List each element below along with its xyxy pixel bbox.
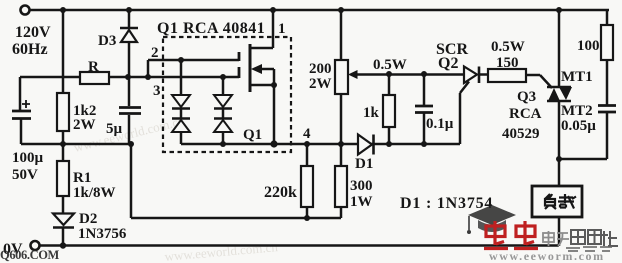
svg-text:220k: 220k [264,184,297,201]
svg-text:3: 3 [153,83,161,99]
svg-text:Q1: Q1 [243,127,262,143]
svg-text:150: 150 [496,55,519,71]
svg-text:D2: D2 [79,211,97,227]
svg-text:D3: D3 [98,33,116,49]
svg-text:RCA: RCA [509,106,542,122]
svg-text:1N3756: 1N3756 [78,226,127,242]
svg-text:D1: D1 [355,156,373,172]
svg-text:1k/8W: 1k/8W [73,185,116,201]
svg-text:Q3: Q3 [517,89,536,105]
svg-text:200: 200 [309,61,332,77]
svg-text:Q1 RCA 40841: Q1 RCA 40841 [157,20,265,37]
svg-text:R: R [88,59,99,75]
svg-text:0.5W: 0.5W [491,39,525,55]
svg-text:R1: R1 [73,170,91,186]
svg-text:100: 100 [577,38,600,54]
svg-text:2W: 2W [309,76,332,92]
svg-text:300: 300 [350,178,373,194]
svg-text:2W: 2W [73,117,96,133]
svg-text:40529: 40529 [502,126,540,142]
svg-text:D1 : 1N3754: D1 : 1N3754 [400,195,493,212]
svg-text:60Hz: 60Hz [12,41,48,58]
svg-text:100µ: 100µ [12,150,44,166]
svg-text:www.eeworm.com: www.eeworm.com [489,249,605,263]
svg-text:Q2: Q2 [438,55,458,72]
svg-text:120V: 120V [15,24,51,41]
svg-text:1W: 1W [350,194,373,210]
svg-text:2: 2 [151,45,159,61]
svg-text:5µ: 5µ [106,121,123,137]
svg-text:1k: 1k [363,105,380,121]
svg-text:Q606.COM: Q606.COM [0,248,60,262]
svg-text:0.5W: 0.5W [373,57,407,73]
svg-text:0.05µ: 0.05µ [561,118,596,134]
svg-text:50V: 50V [12,167,38,183]
svg-text:4: 4 [303,126,311,142]
svg-text:MT2: MT2 [561,103,593,119]
svg-text:MT1: MT1 [561,69,593,85]
svg-text:1: 1 [278,21,286,37]
svg-text:0.1µ: 0.1µ [426,116,454,132]
